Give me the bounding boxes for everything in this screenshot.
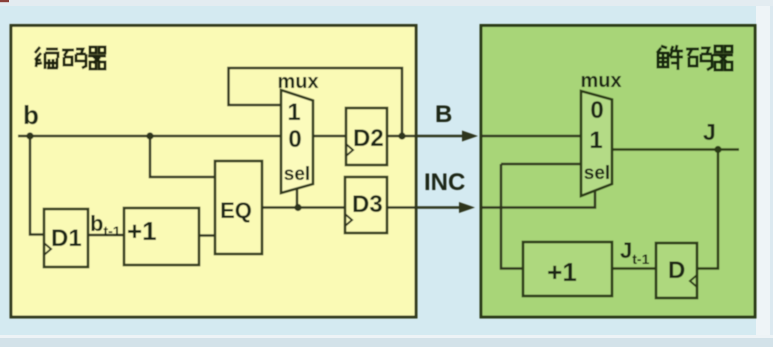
clock mark D2: [346, 144, 353, 156]
wire mux out to D2: [313, 135, 346, 138]
svg-text:D2: D2: [353, 125, 384, 152]
red sliver top-left: [0, 0, 9, 2]
svg-text:B: B: [435, 101, 452, 128]
flip-flop D3: [345, 177, 387, 233]
wire mux out / J line: [612, 148, 739, 151]
svg-text:0: 0: [590, 97, 603, 124]
bottom strip: [0, 338, 773, 347]
wire sel stub to mux: [296, 188, 299, 208]
adder +1 (decoder): [523, 242, 612, 296]
adder +1 (encoder): [124, 208, 199, 265]
node B junction: [398, 132, 405, 139]
svg-text:D1: D1: [51, 225, 82, 252]
label decoder (解码器): [657, 45, 733, 70]
node on b rail (x=152): [146, 132, 153, 139]
wire b main rail: [18, 135, 280, 138]
svg-text:mux: mux: [277, 71, 318, 93]
char 码: [686, 48, 712, 70]
char 解: [657, 46, 668, 67]
wire b down to D1: [30, 136, 44, 235]
wire D3 out / INC line: [387, 206, 461, 209]
svg-text:D3: D3: [352, 191, 383, 218]
encoder outer box: [11, 26, 416, 318]
wire D1 to +1 (b t-1): [88, 234, 124, 237]
wire J down to D: [697, 150, 718, 269]
flip-flop D2: [346, 108, 387, 165]
wire D2 out / B line: [387, 135, 464, 138]
flip-flop D1: [44, 209, 88, 267]
svg-text:1: 1: [287, 99, 300, 126]
node J junction: [714, 146, 721, 153]
top light strip: [0, 0, 773, 6]
svg-text:EQ: EQ: [220, 198, 252, 223]
svg-text:J: J: [703, 119, 716, 145]
clock mark D3: [345, 214, 352, 226]
wire +1 to EQ: [199, 234, 215, 237]
decoder outer box: [481, 26, 755, 318]
wire INC inside decoder: [481, 189, 595, 208]
svg-text:b: b: [23, 100, 39, 130]
char 器: [713, 46, 733, 70]
svg-text:+1: +1: [547, 257, 577, 287]
wire D out to +1 (J t-1): [612, 267, 656, 270]
flip-flop D (decoder): [656, 243, 697, 298]
wire feedback loop (D2 out to mux 1): [229, 68, 403, 136]
svg-text:mux: mux: [580, 70, 621, 92]
right light band: [756, 0, 770, 347]
wire feedback vertical: [501, 164, 523, 269]
wire B inside decoder: [481, 135, 581, 138]
char 码: [62, 49, 86, 68]
node on b rail (x=30): [26, 132, 33, 139]
wire sel feedback horizontal to mux: [501, 163, 581, 166]
clock mark D1: [44, 243, 51, 255]
svg-text:1: 1: [589, 127, 602, 154]
label encoder (编码器): [35, 47, 106, 69]
comparator EQ: [215, 161, 262, 254]
clock mark D (right edge, pointing left): [690, 275, 697, 287]
wire b rail down to EQ: [150, 136, 215, 177]
bottom separator line: [0, 335, 773, 338]
mux U2 (decoder): [581, 91, 612, 196]
svg-text:+1: +1: [127, 216, 157, 246]
svg-text:sel: sel: [284, 164, 310, 185]
svg-text:D: D: [668, 257, 685, 284]
arrow INC into decoder: [459, 202, 475, 213]
wire EQ output to D3: [262, 206, 345, 209]
svg-text:0: 0: [288, 126, 301, 153]
svg-text:sel: sel: [584, 163, 610, 184]
char 器: [88, 47, 106, 69]
node sel junction: [294, 204, 301, 211]
arrow B into decoder: [462, 131, 478, 142]
svg-text:INC: INC: [424, 169, 465, 196]
mux U1 (encoder): [281, 90, 313, 193]
char 编: [35, 47, 42, 67]
